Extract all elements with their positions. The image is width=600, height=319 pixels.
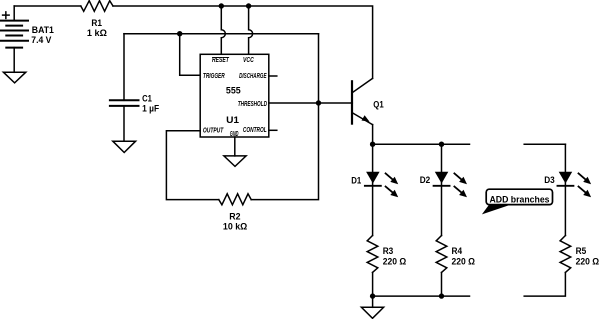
- wire OUTPUT to R2: [166, 131, 218, 200]
- node THRESHOLD junction: [316, 100, 321, 105]
- svg-text:RESET: RESET: [212, 57, 229, 64]
- node emitter/D1 junction: [370, 142, 375, 147]
- wire LED top rail: [373, 143, 470, 145]
- pin stub CONTROL: [269, 129, 277, 131]
- svg-text:ADD branches: ADD branches: [490, 195, 550, 205]
- label R4 value: [452, 246, 476, 266]
- svg-text:R5: R5: [576, 246, 587, 256]
- wire bottom rail: [373, 295, 470, 297]
- wire top rail left (battery to R1): [14, 5, 81, 7]
- wire RESET vertical with hop: [221, 6, 225, 54]
- wire 555 GND lead: [234, 137, 236, 156]
- wire R4 to bottom rail: [441, 273, 443, 297]
- node R3/ground junction: [370, 293, 375, 298]
- svg-text:220 Ω: 220 Ω: [576, 256, 600, 266]
- callout ADD branches tail: [482, 205, 510, 215]
- svg-text:THRESHOLD: THRESHOLD: [238, 101, 267, 108]
- capacitor C1: [123, 34, 125, 101]
- resistor R2: [219, 194, 251, 205]
- svg-text:GND: GND: [230, 131, 239, 138]
- svg-text:D2: D2: [420, 175, 431, 185]
- label R5 value: [576, 246, 600, 266]
- resistor R1: [81, 1, 113, 12]
- svg-text:VCC: VCC: [243, 57, 254, 64]
- svg-text:R1: R1: [91, 18, 102, 28]
- svg-text:DISCHARGE: DISCHARGE: [239, 73, 267, 80]
- wire VCC vertical with hop: [249, 6, 253, 54]
- svg-text:OUTPUT: OUTPUT: [203, 128, 224, 135]
- wire D3 top rail stub: [524, 143, 565, 145]
- wire THRESHOLD to Q1 base: [269, 102, 353, 104]
- wire R3 to bottom rail: [372, 273, 374, 297]
- label R1 value: [87, 18, 107, 38]
- LED D3: [558, 144, 592, 235]
- ground (C1): [113, 141, 136, 152]
- node TRIGGER tap junction: [177, 31, 182, 36]
- pin stub DISCHARGE: [269, 75, 277, 77]
- svg-text:CONTROL: CONTROL: [243, 127, 267, 134]
- svg-text:C1: C1: [142, 94, 152, 104]
- node VCC rail junction: [246, 3, 251, 8]
- resistor R3: [367, 236, 378, 273]
- ground (battery): [3, 72, 25, 83]
- wire trigger tap to pin: [180, 34, 201, 76]
- label C1 value: [142, 94, 159, 114]
- svg-text:D1: D1: [351, 175, 361, 185]
- node RESET rail junction: [219, 3, 224, 8]
- wire trigger rail: [124, 33, 319, 35]
- callout ADD branches bubble: [486, 189, 552, 204]
- transistor Q1: [352, 78, 373, 144]
- svg-text:1 kΩ: 1 kΩ: [87, 28, 107, 38]
- svg-text:1 µF: 1 µF: [142, 104, 159, 114]
- ground (LED rail): [372, 296, 374, 307]
- resistor R4: [436, 236, 447, 273]
- svg-text:Q1: Q1: [373, 99, 383, 109]
- node D2 junction: [439, 142, 444, 147]
- wire R5 to bottom stub: [524, 273, 565, 297]
- svg-text:TRIGGER: TRIGGER: [203, 73, 225, 80]
- svg-text:10 kΩ: 10 kΩ: [223, 222, 247, 232]
- resistor R5: [560, 236, 571, 273]
- svg-text:R3: R3: [383, 246, 394, 256]
- pin label RESET with overline: [212, 57, 229, 64]
- node R4 junction: [439, 293, 444, 298]
- svg-text:555: 555: [226, 85, 241, 95]
- svg-text:7.4 V: 7.4 V: [31, 35, 51, 45]
- label R3 value: [383, 246, 407, 266]
- wire battery to ground: [13, 48, 15, 73]
- battery BAT1: [1, 21, 29, 48]
- wire R2 to trigger rail: [251, 34, 318, 200]
- svg-text:220 Ω: 220 Ω: [383, 256, 407, 266]
- ground (555 GND): [224, 156, 246, 167]
- wire top rail right (R1 to Q1 collector corner): [113, 6, 373, 78]
- svg-text:D3: D3: [544, 175, 555, 185]
- svg-text:R4: R4: [452, 246, 463, 256]
- svg-text:220 Ω: 220 Ω: [452, 256, 476, 266]
- LED D1: [365, 144, 398, 235]
- svg-text:R2: R2: [229, 212, 240, 222]
- label R2 value: [223, 212, 247, 232]
- svg-text:U1: U1: [226, 115, 239, 125]
- wire battery top lead: [13, 6, 15, 21]
- IC U1 555 timer box: [200, 54, 269, 137]
- svg-text:BAT1: BAT1: [32, 25, 54, 35]
- label BAT1 value: [31, 25, 54, 45]
- LED D2: [434, 144, 467, 235]
- battery plus sign: [3, 12, 10, 19]
